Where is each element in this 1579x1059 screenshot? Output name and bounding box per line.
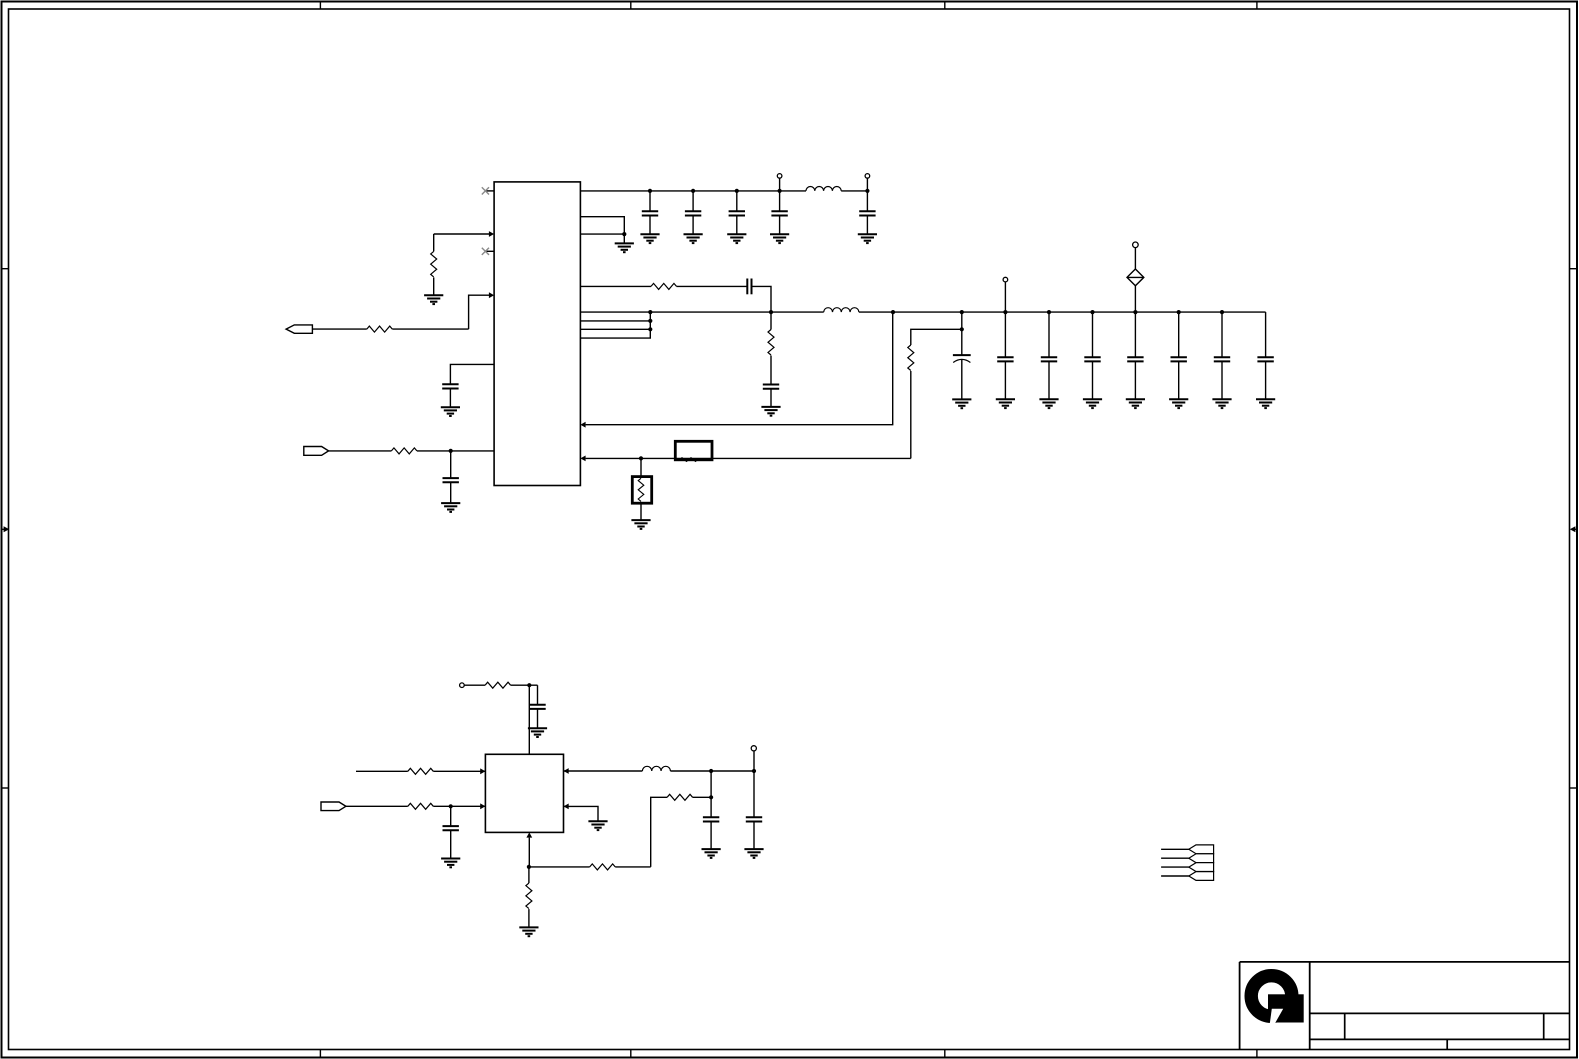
- resistor R6: [908, 345, 914, 371]
- wire T2 stem: [866, 178, 868, 191]
- junction dot node D: [527, 865, 531, 869]
- ground pol cap: [952, 399, 971, 408]
- junction dot node B: [752, 769, 756, 773]
- wire R10 corner: [651, 797, 667, 867]
- junction dot jog: [622, 232, 626, 236]
- wire P3 to R9: [346, 805, 408, 807]
- pin arrow feedback upper: [580, 422, 585, 428]
- inductor L2: [824, 308, 859, 312]
- wire C20 bottom: [710, 822, 712, 850]
- wires to connector stack: [1161, 849, 1189, 876]
- ground C21: [744, 849, 763, 858]
- wire U1 left pin2: [434, 233, 490, 235]
- capacitor C15 rail-bank: [1169, 312, 1188, 408]
- wire R10 to node C: [693, 796, 712, 798]
- wire C2 bottom: [450, 482, 452, 503]
- wire C8 to rail: [752, 286, 772, 312]
- capacitor C6 top-bank: [770, 191, 789, 243]
- no-connect stub pin3 U1: [486, 250, 494, 252]
- wire C2 top: [450, 451, 452, 478]
- wire U1 pin jog top: [580, 217, 624, 234]
- IC U1: [494, 182, 580, 486]
- wire feedback lower: [586, 457, 911, 459]
- wire L1 to node: [841, 190, 867, 192]
- wire C19 bottom: [450, 830, 452, 858]
- resistor R7: [485, 682, 511, 688]
- terminal circle T2: [865, 174, 870, 179]
- pin arrow U2 left1: [480, 768, 485, 774]
- pin arrow feedback lower: [580, 456, 585, 462]
- junction dot pol-cap node: [960, 327, 964, 331]
- wire bundle pin4: [580, 312, 650, 338]
- title block rows: [1310, 1013, 1570, 1049]
- wire C9 bottom: [770, 389, 772, 407]
- wire U2 top pin: [528, 685, 530, 754]
- wire diamond to rail: [1134, 286, 1136, 312]
- wire P1 to R2: [312, 328, 366, 330]
- polarized capacitor C10: [953, 355, 971, 362]
- wire node A down: [710, 771, 712, 797]
- capacitor C7 top-bank: [858, 191, 877, 243]
- resistor R12: [526, 883, 532, 909]
- capacitor C18: [529, 705, 545, 709]
- wire L2 to node: [859, 311, 893, 313]
- resistor R9: [408, 803, 434, 809]
- wire U2 bottom pin: [528, 838, 530, 867]
- resistor R11: [590, 864, 616, 870]
- ground C19: [441, 859, 460, 868]
- wire pol cap bottom: [961, 360, 963, 400]
- capacitor C20: [703, 817, 719, 821]
- wire U1 rowA: [580, 285, 651, 287]
- wire U2 right pin2: [564, 806, 599, 821]
- inductor L3: [642, 766, 670, 771]
- wire C21 bottom: [753, 822, 755, 850]
- terminal circle T4: [1133, 242, 1139, 248]
- wire T6 stem: [753, 751, 755, 771]
- wire T3 stem: [1004, 282, 1006, 312]
- resistor R8: [408, 768, 434, 774]
- pin arrow U2 right2: [564, 804, 569, 810]
- wire R9 to U2: [433, 805, 485, 807]
- IC U2: [485, 754, 563, 832]
- capacitor C9: [763, 385, 779, 389]
- wire thermistor top: [640, 458, 642, 476]
- junction dots bundle: [648, 310, 773, 331]
- ground R1: [424, 295, 443, 304]
- ground C9: [761, 407, 780, 416]
- wire T4 stem: [1134, 248, 1136, 269]
- resistor R5: [768, 330, 774, 356]
- wire C18 bottom: [537, 709, 539, 728]
- terminal circle T1: [777, 174, 782, 179]
- wire R12 bottom: [528, 909, 530, 927]
- frame arrow left edge: [2, 526, 10, 532]
- wire R2 to bend: [392, 328, 468, 330]
- wire thermistor bottom: [640, 503, 642, 520]
- no-connect X pin1: [482, 187, 489, 194]
- wire C19 top: [450, 806, 452, 826]
- ground C2: [441, 503, 460, 512]
- wire R6 vertical: [910, 371, 912, 458]
- thermistor RT1: [632, 477, 651, 504]
- ground R12: [519, 927, 538, 936]
- off-page connector P3: [321, 802, 346, 811]
- wire pol cap stem: [961, 312, 963, 355]
- wire R6 top: [911, 329, 962, 345]
- junction dot node C: [709, 795, 713, 799]
- off-page connector P2: [304, 447, 329, 456]
- frame arrow right edge: [1570, 526, 1578, 532]
- capacitor C16 rail-bank: [1212, 312, 1231, 408]
- wire R11 to corner: [615, 866, 651, 868]
- wire top rail U1: [580, 190, 806, 192]
- wire C18 stub: [537, 685, 539, 705]
- wire C1 bottom: [449, 389, 451, 408]
- capacitor C2: [443, 478, 459, 482]
- wire bundle pin3: [580, 328, 650, 330]
- wire R5 to C9: [770, 356, 772, 385]
- wire feedback upper: [586, 312, 893, 425]
- wire bus rail B: [580, 311, 823, 313]
- wire R7 to node: [511, 684, 538, 686]
- ground C18: [528, 728, 547, 737]
- wire R5 top: [770, 312, 772, 329]
- capacitor C11 rail-bank: [996, 312, 1015, 408]
- junction dot U2 top node: [527, 683, 531, 687]
- wire R8 to U2: [433, 770, 485, 772]
- capacitor C5 top-bank: [727, 191, 746, 243]
- power symbol diamond: [1127, 269, 1144, 286]
- inductor L1: [806, 187, 841, 191]
- wire L3 to node: [670, 770, 754, 772]
- capacitor C4 top-bank: [684, 191, 703, 243]
- ground thermistor: [631, 520, 650, 529]
- wire T5 to R7: [464, 684, 485, 686]
- junction dots top rail: [648, 189, 870, 193]
- ground U2 right pin2: [588, 821, 607, 830]
- series capacitor C8: [747, 279, 751, 295]
- resistor R1: [431, 251, 437, 277]
- terminal circle T5: [460, 683, 465, 688]
- wire R12 top: [528, 867, 530, 883]
- junction dot C2 node: [449, 449, 453, 453]
- wire C21 stem: [753, 771, 755, 817]
- wire jog to ground: [623, 234, 625, 243]
- title block outline: [1240, 962, 1570, 1050]
- wire C20 stem: [710, 797, 712, 817]
- ground C20: [702, 849, 721, 858]
- wire U1 left pin5: [450, 364, 494, 384]
- capacitor C3 top-bank: [640, 191, 659, 243]
- wire U1 pin jog bottom: [580, 233, 624, 235]
- company logo: [1251, 976, 1304, 1024]
- wire node D to R11: [529, 866, 590, 868]
- terminal circle T6: [751, 746, 756, 751]
- component box B1: [675, 441, 712, 461]
- wire U2 right pin1: [564, 770, 643, 772]
- pin arrow U2 right1: [564, 768, 569, 774]
- off-page connector P1: [286, 325, 312, 333]
- off-page connector stack P4: [1189, 845, 1214, 881]
- resistor R3: [391, 448, 417, 454]
- capacitor C12 rail-bank: [1039, 312, 1058, 408]
- capacitor C1: [442, 384, 458, 388]
- capacitor C19: [443, 826, 459, 830]
- wire rail right: [893, 311, 1266, 313]
- wire U1 left pin4: [469, 295, 490, 329]
- junction dots rail: [1003, 310, 1224, 314]
- wire P2 to R3: [329, 450, 392, 452]
- junction dot node A: [709, 769, 713, 773]
- pin arrow U2 bottom: [526, 832, 532, 837]
- resistor R10: [667, 794, 693, 800]
- wire bundle pin2: [580, 320, 650, 322]
- junction dot rail node: [891, 310, 895, 314]
- junction dot rail x962: [960, 310, 964, 314]
- wire R4 to C8: [677, 285, 748, 287]
- no-connect stub pin1 U1: [486, 190, 494, 192]
- capacitor C13 rail-bank: [1083, 312, 1102, 408]
- terminal circle T3: [1003, 277, 1008, 282]
- wire T1 stem: [779, 178, 781, 191]
- junction dot lower line: [639, 456, 643, 460]
- pin arrow U1 pin4: [489, 292, 494, 298]
- wire R3 to U1: [417, 450, 494, 452]
- junction dot C19 node: [449, 804, 453, 808]
- capacitor C14 rail-bank: [1126, 312, 1145, 408]
- capacitor C17 rail-bank: [1256, 312, 1275, 408]
- wire U2 left pin1: [356, 770, 408, 772]
- pin arrow U1 pin2: [489, 231, 494, 237]
- wire R1 bottom: [433, 277, 435, 295]
- resistor R4: [651, 283, 677, 289]
- wire R1 top: [433, 234, 435, 251]
- resistor R2: [367, 326, 393, 332]
- pin arrow U2 left2: [480, 803, 485, 809]
- capacitor C21: [746, 817, 762, 821]
- ground C1: [441, 407, 460, 416]
- ground jog: [615, 243, 634, 252]
- no-connect X pin3: [482, 248, 489, 255]
